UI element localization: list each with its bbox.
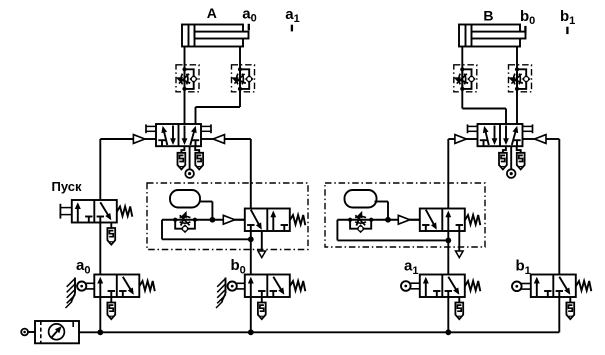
pilot triangle V2 left [455,135,478,144]
silencer V2 exhaust right [517,146,525,169]
silencer a0 [107,297,115,319]
wire A right port elbow to valve [196,107,241,124]
junction bus / start column [97,329,103,335]
wire a1 to bus [447,297,449,332]
roller actuator b0 [228,282,245,291]
flow control DR4 (B cap side) [508,65,531,92]
wire V2 left pilot [448,139,455,209]
wire RS2 to pilot line [375,202,389,220]
position mark b0 [524,26,526,33]
push button actuator [60,204,71,219]
pressure gauge [49,324,65,340]
position mark a1 [291,25,293,32]
pilot triangle V1 left [133,135,156,144]
air reservoir RS1 [170,190,200,208]
silencer V2 exhaust left [499,146,507,169]
junction bus / a1 column [445,329,451,335]
pilot triangle V1 right [201,135,225,144]
label b0 (valve) [231,257,246,276]
cylinder A [182,25,249,47]
wire RS1 to pilot line [200,202,212,220]
exhaust KV1 [258,231,266,258]
timer unit 1 frame [147,183,308,250]
wire a0 to bus [99,297,101,332]
pressure source port V1 [185,146,194,178]
label b1 (top) [560,8,575,27]
wire cylinder A right port down [239,47,241,108]
roller actuator a0 [77,282,94,291]
svg-text:Пуск: Пуск [52,179,82,194]
position mark b1 [566,27,568,34]
silencer V1 exhaust right [195,146,203,169]
label a1 (valve) [404,258,418,277]
roller actuator b1 [512,282,531,292]
check valve loop timer2 [350,220,371,233]
inlet port circle [21,329,35,336]
flow control DR1 (A rod side) [176,65,199,92]
wire V1 left pilot [100,139,133,200]
junction reservoir1 [210,217,216,223]
timer1 feed loop [162,220,251,240]
3/2 limit valve a1 [420,275,481,298]
wire start valve to a0 [99,223,101,275]
timer2 feed loop [337,220,448,241]
position mark a0 [248,24,250,31]
silencer a1 [455,297,463,319]
timer unit 2 frame [325,183,485,247]
cylinder B [459,25,526,47]
junction timer1 feed [248,236,254,242]
3/2 start valve (Пуск) [72,200,133,223]
supply bus wire [79,331,559,333]
wire b1 to bus riser [558,297,560,332]
label a0 (valve) [76,257,90,276]
wire b0 to bus [250,297,252,332]
3/2 delay valve KV1 (timer1) [245,209,305,232]
svg-text:B: B [483,7,493,23]
5/2 valve V1 (cylinder A) [146,124,211,146]
wire KV2 to a1 [447,231,449,275]
flow control DR3 (B rod side) [454,65,477,92]
roller wall a0 [66,278,76,309]
wire KV1 to b0 [250,231,252,275]
pilot triangle timer1 [223,215,245,224]
wire cylinder A left port to valve [184,47,186,125]
pressure source port V2 [507,146,516,178]
junction timer2 feed [445,238,451,244]
label A [207,5,217,21]
label b1 (valve) [516,258,531,277]
roller actuator a1 [401,281,420,291]
wire V1 right pilot [225,139,251,209]
wire cylinder B left port down [461,47,463,109]
label a0 (top) [242,5,256,24]
label B [483,7,493,23]
check valve loop timer1 [175,220,195,233]
junction bus / b0 column [248,329,254,335]
silencer b1 [566,297,574,319]
exhaust KV2 [456,231,464,258]
timer2 pilot line [337,219,419,221]
5/2 valve V2 (cylinder B) [468,124,533,146]
silencer V1 exhaust left [178,146,186,169]
junction reservoir2 [385,217,391,223]
throttle T2 (timer2) [348,211,373,226]
throttle T1 (timer1) [173,211,197,226]
flow control DR2 (A cap side) [231,65,254,92]
svg-text:A: A [207,5,217,21]
silencer start valve [107,223,115,245]
silencer b0 [258,297,266,319]
label a1 (top) [285,6,299,25]
label b0 (top) [520,8,535,27]
pilot triangle V2 right [523,135,547,144]
wire V2 right pilot [546,139,559,275]
roller wall b0 [216,278,226,309]
wire cylinder B right port to valve [516,47,518,125]
3/2 limit valve a0 [94,275,155,298]
air service unit [35,321,79,343]
timer1 pilot line [162,219,245,221]
3/2 delay valve KV2 (timer2) [420,209,481,232]
wire B left port elbow to valve [462,109,506,125]
label Пуск [52,179,82,194]
3/2 limit valve b1 [531,275,592,298]
3/2 limit valve b0 [245,275,305,298]
pilot triangle timer2 [398,215,420,224]
air reservoir RS2 [345,190,377,208]
